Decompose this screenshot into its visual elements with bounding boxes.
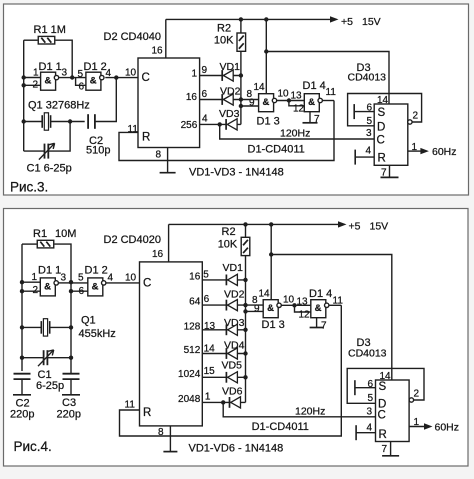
svg-text:120Hz: 120Hz [295,406,325,418]
pin 1 label [33,68,39,79]
svg-text:4: 4 [367,423,373,434]
wire [24,121,43,123]
pin 2 bubble [409,398,413,402]
node junction [70,75,74,79]
wire out1024 [202,376,245,378]
diode VD1 [222,70,233,81]
pin 1 label [412,142,418,153]
svg-text:1: 1 [33,68,39,79]
ground C3 [62,379,80,395]
wire diode bus [245,255,247,402]
pin 6 label [204,294,210,305]
wire C1 row [22,357,44,359]
svg-text:C: C [142,72,150,84]
diode VD3 label [219,108,240,120]
diode VD2 [222,94,233,105]
gate D1.4 label [303,80,326,92]
svg-text:VD1-VD3 - 1N4148: VD1-VD3 - 1N4148 [189,167,284,179]
label 120Hz [280,128,310,140]
pin 4 label [106,68,112,79]
ground D1.4 pin7 [310,318,324,328]
pin 7 label [382,444,388,455]
svg-text:14: 14 [380,371,392,382]
svg-text:D1-CD4011: D1-CD4011 [248,144,305,156]
wire [47,357,71,359]
svg-text:10: 10 [278,89,290,100]
wire out64 [202,304,245,306]
wire +5 to D3 pin14 [271,255,392,381]
figure label Fig.4 [14,439,52,454]
pin 7 label [314,114,320,125]
tie bar S [353,104,355,119]
wire pin1 [24,77,41,79]
svg-text:256: 256 [181,120,198,131]
svg-text:2: 2 [414,389,420,400]
svg-text:15: 15 [204,366,216,377]
svg-text:VD1-VD6 - 1N4148: VD1-VD6 - 1N4148 [189,443,284,455]
svg-text:Рис.4.: Рис.4. [14,439,52,454]
svg-text:6-25p: 6-25p [36,380,64,392]
ground D3 pin7 [382,442,399,456]
out 256 label [181,120,198,131]
wire 120Hz [220,124,375,139]
svg-text:15V: 15V [362,16,381,28]
pin 6 label [368,379,374,390]
wire +5 to gates [270,224,272,299]
op-amp gate D1.2 [88,278,106,296]
pin 11 label [125,400,136,411]
op-amp gate D1.2 [86,72,104,90]
C input label [142,72,150,84]
diode VD5 label [222,360,243,372]
node junction [264,49,268,53]
svg-text:5: 5 [368,393,374,404]
pin 8 label [156,150,162,161]
pin 1 label [205,391,211,402]
wire [51,121,85,123]
svg-text:D1 4: D1 4 [309,288,332,300]
wire [50,326,71,328]
wire [245,224,247,237]
wire left vertical [21,244,23,371]
out 512 label [184,345,201,356]
output 60Hz arrow [408,148,429,154]
svg-text:120Hz: 120Hz [280,128,310,140]
svg-text:6: 6 [204,294,210,305]
svg-text:D: D [377,122,385,134]
out 128 label [184,321,201,332]
pin 10 label [278,89,290,100]
svg-text:512: 512 [184,345,201,356]
node junction [269,252,273,256]
capacitor C3 [63,374,80,379]
svg-text:14: 14 [254,82,266,93]
power rail +5 [169,221,347,227]
svg-text:&: & [308,97,315,108]
svg-text:9: 9 [202,65,208,76]
ground D2 pin8 [160,148,176,173]
C input label [378,410,386,422]
svg-text:C3: C3 [62,397,76,409]
svg-text:&: & [44,281,51,292]
capacitor C2 [14,374,31,379]
resistor R1 [37,240,54,248]
svg-text:CD4013: CD4013 [348,348,387,360]
pin 4 label [367,423,373,434]
wire [48,122,70,152]
svg-text:11: 11 [125,400,136,411]
svg-text:1: 1 [32,272,38,283]
wire pin6 jog [71,290,88,292]
label D1-CD4011 [252,421,309,433]
svg-text:Q1 32768Hz: Q1 32768Hz [28,100,90,112]
node junction [243,278,247,380]
svg-text:C: C [378,410,386,422]
resistor R2 label [214,23,234,47]
R input label [142,132,150,144]
svg-text:13: 13 [291,91,303,102]
crystal Q1 label [79,315,116,341]
tie bar R [355,425,357,440]
svg-text:10K: 10K [214,35,234,47]
op-amp gate D1.1 [40,278,58,296]
node junction [20,280,24,360]
feedback loop Q-bar to D [348,94,422,126]
svg-text:D1 4: D1 4 [303,80,326,92]
diode VD4 label [224,340,245,352]
pin 2 label [33,80,39,91]
resistor R1 [38,36,55,44]
diode VD6 [230,397,241,408]
svg-text:7: 7 [321,321,327,332]
svg-text:220p: 220p [10,409,34,421]
wire [281,304,310,306]
pin 16 label [152,46,164,57]
feedback loop Q-bar to D [347,368,424,403]
pin 8 label [252,295,258,306]
pin 14 label [377,95,389,106]
node junction [221,400,225,404]
wire [23,40,25,151]
diode VD1 [226,274,237,285]
wire [22,243,37,245]
pin 15 label [204,366,216,377]
wire R tie [356,432,375,434]
ground C2 [13,379,31,395]
wire [56,40,73,77]
IC D2 CD4020 [140,262,203,426]
node junction [68,119,72,123]
tie bar R [354,150,356,165]
label +5 15V [341,16,381,28]
svg-text:&: & [92,281,99,292]
wire pin2 [22,290,40,292]
svg-text:VD3: VD3 [219,108,240,120]
wire out256 [200,123,241,125]
svg-text:R: R [143,407,151,419]
capacitor C2 label [10,398,34,421]
svg-text:10: 10 [125,68,137,79]
wire C1 loop [24,150,45,152]
wire out16 [200,99,241,101]
wire S tie [355,387,376,389]
svg-text:60Hz: 60Hz [432,146,457,158]
node junction [287,98,291,102]
svg-text:D2 CD4040: D2 CD4040 [104,31,161,43]
svg-text:6: 6 [202,89,208,100]
svg-text:+5: +5 [341,16,353,28]
pin 9 label [202,65,208,76]
svg-text:+5: +5 [349,221,361,233]
svg-text:R1 1M: R1 1M [34,24,66,36]
pin 1 label [414,417,420,428]
capacitor C3 label [57,397,81,421]
svg-text:&: & [267,303,274,314]
pin 11 label [333,296,344,307]
svg-text:7: 7 [382,444,388,455]
svg-text:64: 64 [189,297,201,308]
svg-text:14: 14 [204,343,216,354]
svg-text:4: 4 [202,114,208,125]
svg-text:3: 3 [366,128,372,139]
capacitor C2 [88,114,95,129]
pin 5 label [78,273,84,284]
gate D1.3 label [262,319,285,331]
wire R pin feedback [119,101,334,161]
IC D3 label [348,62,387,84]
svg-text:D1 2: D1 2 [85,265,108,277]
wire out1 [200,75,241,77]
gate D1.1 label [38,265,61,277]
wire out128 [202,329,245,331]
svg-text:VD5: VD5 [222,360,243,372]
out 1 label [191,68,197,79]
pin 9 label [249,98,255,109]
node junction [69,280,73,360]
pin 4 label [202,114,208,125]
out 16 label [189,271,201,282]
pin 4 label [366,146,372,157]
svg-text:&: & [315,303,322,314]
pin 8 label [158,427,164,438]
svg-text:14: 14 [377,95,389,106]
pin 11 label [326,87,337,98]
S input label [378,107,386,119]
wire pin16 [165,19,167,58]
wire pin5 [71,282,88,284]
node junction [218,122,222,126]
wire +5 to gates [265,19,267,93]
resistor R2 label [218,226,238,251]
resistor R1 label [34,24,66,36]
svg-text:455kHz: 455kHz [79,328,116,340]
node junction [239,73,243,108]
power rail +5 [166,16,339,22]
pin 10 label [125,273,137,284]
wire [323,100,335,102]
pin 10 label [125,68,137,79]
op-amp gate D1.4 [304,94,322,112]
svg-text:60Hz: 60Hz [435,422,460,434]
svg-text:R: R [142,132,150,144]
svg-text:R2: R2 [222,226,236,238]
pin 2 bubble [408,120,412,124]
out 16 label [186,92,198,103]
svg-text:R: R [379,429,387,441]
svg-text:12: 12 [299,310,311,321]
capacitor C1 label [36,369,64,392]
svg-text:C: C [377,135,385,147]
gate D1.3 label [257,116,280,128]
label 60Hz [435,422,460,434]
wire R tie [355,156,374,158]
svg-text:D1 3: D1 3 [257,116,280,128]
resistor R2 [237,33,246,51]
svg-text:S: S [378,107,386,119]
wire pin16 [168,224,170,262]
diode VD1 label [220,61,241,73]
diode VD6 label [222,386,243,398]
svg-text:3: 3 [62,68,68,79]
pin 5 label [78,69,84,80]
out 2048 label [178,394,201,405]
wire [95,78,116,122]
panel 2 frame (Fig.4) [4,209,469,467]
svg-text:12: 12 [293,104,305,115]
svg-text:R1: R1 [33,228,47,240]
R input label [143,407,151,419]
pin 5 label [203,270,209,281]
IC D3 CD4013 [374,104,408,165]
D input label [378,399,386,411]
capacitor C1 trimmer [38,350,54,366]
pin 10 label [283,295,295,306]
wire pin12 jog [289,101,304,106]
svg-text:C: C [143,278,151,290]
wire pin2 [24,84,41,86]
wire out16 [202,279,245,281]
IC D3 CD4013 [376,380,410,442]
label 60Hz [432,146,457,158]
svg-text:S: S [379,381,387,393]
svg-text:11: 11 [326,87,337,98]
node junction [22,75,26,123]
node junction [243,222,273,226]
label D1-CD4011 [248,144,305,156]
pin 13 label [204,321,216,332]
diode VD4 [226,348,237,359]
out 64 label [189,297,201,308]
diode VD1 label [223,262,244,274]
svg-text:5: 5 [78,273,84,284]
svg-text:D1 2: D1 2 [84,61,107,73]
wire pin1 [22,281,40,283]
svg-text:R2: R2 [217,23,231,35]
svg-text:7: 7 [314,114,320,125]
svg-text:D2 CD4020: D2 CD4020 [104,234,161,246]
svg-text:5: 5 [78,69,84,80]
wire diode bus [240,51,242,124]
node junction [292,303,296,307]
diode VD2 [226,300,237,311]
pin 12 label [299,310,311,321]
diode VD2 label [220,86,241,98]
svg-text:VD1: VD1 [223,262,244,274]
svg-text:10: 10 [125,273,137,284]
capacitor C2 label [86,135,110,157]
wire [329,304,341,306]
ground D3 pin7 [381,165,399,177]
pin 4 label [108,273,114,284]
wire pin9 [241,105,259,107]
wire out2048 [202,401,245,403]
pin 3 label [366,128,372,139]
pin 2 label [33,285,39,296]
svg-text:D1 1: D1 1 [39,61,62,73]
pin 14 label [204,343,216,354]
output 60Hz arrow [409,423,432,429]
ground D2 pin8 [163,426,177,452]
pin 16 label [152,249,164,260]
crystal Q1 [42,113,50,130]
pin 3 label [367,407,373,418]
wire +5 to D3 pin14 [266,52,389,105]
svg-text:6: 6 [79,286,85,297]
pin 5 label [368,393,374,404]
IC D2 label [104,234,161,246]
gate D1.1 label [39,61,62,73]
R input label [379,429,387,441]
resistor R1 label [33,228,76,240]
pin 3 label [62,68,68,79]
svg-text:510p: 510p [86,145,110,157]
ground D1.4 pin7 [303,112,318,123]
svg-text:VD2: VD2 [224,289,245,301]
svg-text:4: 4 [366,146,372,157]
pin 11 label [128,124,139,135]
svg-text:4: 4 [108,273,114,284]
op-amp gate D1.3 [263,300,281,318]
svg-text:220p: 220p [57,409,81,421]
svg-text:10: 10 [283,295,295,306]
crystal Q1 [41,319,49,336]
label +5 15V [349,221,389,233]
svg-text:3: 3 [61,273,67,284]
tie bar S [354,380,356,395]
node junction [239,17,269,21]
label 120Hz [295,406,325,418]
diode VD3 [226,324,237,335]
diode VD3 [226,119,237,130]
svg-text:1: 1 [205,391,211,402]
op-amp gate D1.3 [259,94,277,112]
pin 6 label [79,82,85,93]
svg-text:1: 1 [191,68,197,79]
label VD1-VD6 - 1N4148 [189,443,284,455]
diode VD3 label [224,317,245,329]
svg-text:2: 2 [33,80,39,91]
pin 7 label [381,168,387,179]
wire pin12 jog [295,305,311,312]
pin 12 label [293,104,305,115]
pin 6 label [79,286,85,297]
svg-text:11: 11 [128,124,139,135]
out 1024 label [178,369,201,380]
svg-text:2: 2 [413,111,419,122]
pin 14 label [380,371,392,382]
S input label [379,381,387,393]
wire out512 [202,353,245,355]
